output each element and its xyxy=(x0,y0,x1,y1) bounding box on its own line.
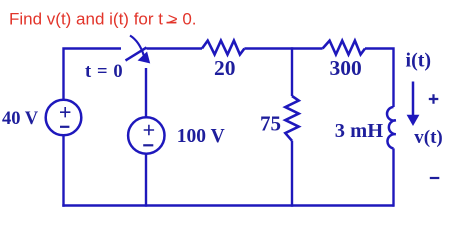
v(t) minus sign xyxy=(430,177,440,179)
inductor L1 coil xyxy=(387,107,396,148)
wire top-left corner and left vertical upper xyxy=(64,49,122,101)
v(t) plus sign xyxy=(429,94,439,104)
wire middle vertical upper xyxy=(291,47,293,96)
voltage source V2 100V circle xyxy=(128,117,164,153)
svg-text:100 V: 100 V xyxy=(177,126,225,147)
svg-text:300: 300 xyxy=(329,56,361,80)
current arrow i(t) xyxy=(412,82,415,117)
wire middle vertical lower xyxy=(291,141,293,207)
wire bottom xyxy=(62,204,394,206)
svg-text:75: 75 xyxy=(260,111,281,135)
wire R1 to R2 xyxy=(244,47,322,49)
V1 minus sign xyxy=(60,126,69,128)
wire right vertical lower xyxy=(392,148,394,206)
wire top-right corner xyxy=(365,49,394,108)
wire switch to R1 xyxy=(147,47,203,49)
underline of greater-than (makes >=) xyxy=(167,22,177,24)
svg-text:t = 0: t = 0 xyxy=(85,62,123,82)
svg-text:20: 20 xyxy=(214,56,236,80)
voltage source V1 40V circle xyxy=(46,100,82,136)
switch SW1 motion arc xyxy=(130,36,144,56)
V2 plus sign xyxy=(144,125,154,135)
resistor R3 75 zigzag xyxy=(285,96,298,141)
svg-text:3 mH: 3 mH xyxy=(335,120,383,142)
svg-text:Find v(t) and i(t) for t > 0.: Find v(t) and i(t) for t > 0. xyxy=(9,10,197,29)
switch SW1 arrowhead xyxy=(139,52,150,62)
svg-text:v(t): v(t) xyxy=(414,127,442,148)
wire V2 to bottom xyxy=(145,154,147,207)
wire switch to V2 xyxy=(145,68,147,118)
switch SW1 blade xyxy=(126,48,147,61)
svg-text:40 V: 40 V xyxy=(2,109,39,129)
V1 plus sign xyxy=(60,107,70,117)
V2 minus sign xyxy=(143,144,153,146)
resistor R1 20 zigzag xyxy=(202,41,244,55)
svg-text:i(t): i(t) xyxy=(406,50,432,72)
resistor R2 300 zigzag xyxy=(323,41,365,55)
wire left vertical lower xyxy=(62,135,64,207)
